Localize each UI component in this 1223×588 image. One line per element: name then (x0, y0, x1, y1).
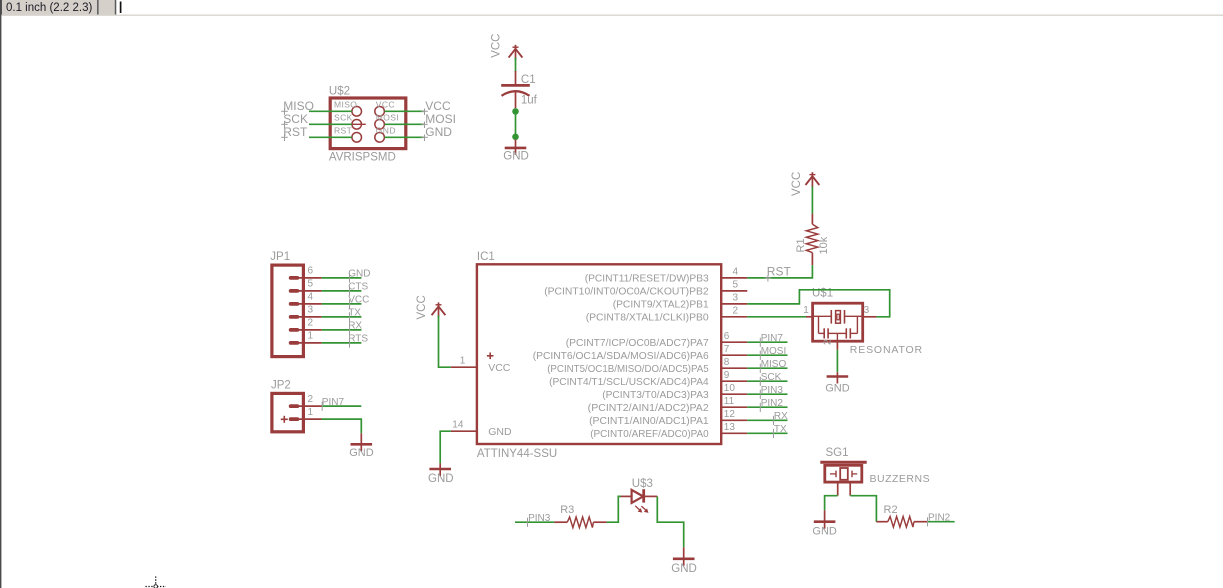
svg-text:3: 3 (308, 305, 314, 316)
JP1 pin 6 blob (289, 276, 299, 280)
svg-text:0.1 inch (2.2 2.3): 0.1 inch (2.2 2.3) (6, 2, 92, 14)
IC1 pin name (PCINT2/AIN1/ADC2)PA2 (588, 402, 709, 414)
JP2 pin 1 stub (299, 418, 322, 420)
svg-text:MOSI: MOSI (761, 346, 787, 357)
svg-text:(PCINT0/AREF/ADC0)PA0: (PCINT0/AREF/ADC0)PA0 (590, 428, 709, 440)
svg-text:1: 1 (308, 407, 314, 418)
wire IC1 pin 6 to net PIN7 (747, 341, 787, 343)
GND label below LED (671, 563, 697, 575)
svg-text:RESONATOR: RESONATOR (850, 344, 923, 356)
svg-text:SCK: SCK (761, 372, 782, 383)
wire net MISO to U$2 left row1 (309, 110, 352, 112)
SG1 left lead (837, 483, 839, 496)
IC1 pin 2 stub (721, 316, 747, 318)
JP2 pin number 1 (308, 407, 314, 418)
ground symbol below SG1 (814, 510, 836, 529)
wire IC1 pin3 loop to U$1 pin3 (747, 290, 889, 317)
svg-text:12: 12 (724, 409, 736, 420)
U$2 pin1 marker line (351, 123, 366, 125)
svg-text:TX: TX (348, 308, 361, 319)
connector JP2 body (272, 393, 304, 431)
net label MOSI right (421, 112, 456, 128)
wire R1 to IC1 pin4 net RST (747, 265, 812, 278)
svg-text:GND: GND (825, 383, 850, 395)
IC1 pin number 10 (724, 383, 736, 394)
IC1 pin number 4 (733, 267, 739, 278)
IC1 pin number 8 (724, 357, 730, 368)
LED U$3 symbol (632, 489, 644, 503)
toolbar coordinate text (6, 2, 92, 14)
wire VCC to C1 (515, 58, 517, 73)
IC1 designator label (477, 251, 495, 263)
svg-text:PIN3: PIN3 (528, 513, 551, 524)
IC1 pin 9 stub (721, 380, 747, 382)
svg-text:1: 1 (460, 355, 466, 366)
svg-text:JP2: JP2 (271, 380, 291, 392)
net label CTS (348, 282, 368, 296)
svg-text:(PCINT8/XTAL1/CLKI)PB0: (PCINT8/XTAL1/CLKI)PB0 (586, 311, 709, 323)
IC1 pin name (PCINT11/RESET/DW)PB3 (585, 273, 709, 285)
JP1 pin number 5 (308, 279, 314, 290)
svg-text:PIN2: PIN2 (761, 398, 784, 409)
svg-text:VCC: VCC (791, 172, 803, 196)
SG1 designator label (826, 447, 849, 459)
svg-text:R2: R2 (884, 504, 898, 516)
U$2 inner pin name GND (376, 125, 396, 135)
IC1 pin name (PCINT4/T1/SCL/USCK/ADC4)PA4 (549, 376, 709, 388)
svg-text:7: 7 (724, 344, 730, 355)
svg-text:GND: GND (428, 473, 454, 485)
left window border (0, 0, 2, 588)
IC1 pin 8 stub (721, 367, 747, 369)
R1 designator rotated (795, 238, 807, 252)
net label PIN3 (528, 513, 551, 527)
svg-text:(PCINT10/INT0/OC0A/CKOUT)PB2: (PCINT10/INT0/OC0A/CKOUT)PB2 (544, 286, 709, 298)
JP1 pin 4 stub (299, 303, 322, 305)
wire U$2 right row3 to net GND (384, 136, 423, 138)
IC1 pin 13 stub (721, 432, 747, 434)
IC1 pin name (PCINT1/AIN0/ADC1)PA1 (589, 415, 709, 427)
IC1 pin name (PCINT6/OC1A/SDA/MOSI/ADC6)PA6 (533, 350, 709, 362)
svg-text:JP1: JP1 (270, 251, 290, 263)
U$2 value label AVRISPSMD (329, 152, 396, 164)
wire IC1 pin 7 to net MOSI (747, 354, 787, 356)
wire IC1 pin2 to U$1 pin1 (747, 316, 806, 318)
R3 left lead (554, 521, 567, 523)
net label VCC right (421, 99, 451, 115)
IC1 pin name (PCINT5/OC1B/MISO/DO/ADC5)PA5 (547, 363, 709, 375)
JP2 pin 1 blob (289, 417, 299, 421)
svg-text:2: 2 (308, 394, 314, 405)
capacitor C1 (501, 71, 530, 108)
IC1 pin number 7 (724, 344, 730, 355)
IC1 pin 10 stub (721, 393, 747, 395)
SG1 crystal detail (830, 468, 857, 480)
IC1 pin 11 stub (721, 406, 747, 408)
SG1 right lead (849, 483, 851, 496)
svg-text:(PCINT1/AIN0/ADC1)PA1: (PCINT1/AIN0/ADC1)PA1 (589, 415, 709, 427)
net label MISO (760, 359, 786, 373)
JP1 pin 3 stub (299, 316, 322, 318)
text cursor in command bar (120, 2, 122, 14)
net label PIN2 (760, 398, 783, 412)
U$2 inner pin name VCC (376, 99, 395, 109)
U$2 pin circle right row2 (375, 120, 385, 130)
wire IC1 pin 13 to net TX (747, 432, 787, 434)
wire JP1 pin 1 to net RTS (322, 342, 362, 344)
JP1 pin number 1 (308, 331, 314, 342)
power symbol VCC above C1 (509, 45, 523, 60)
svg-text:14: 14 (452, 419, 464, 430)
svg-text:U$3: U$3 (632, 478, 653, 490)
net label TX (348, 308, 361, 322)
JP1 pin 4 blob (289, 302, 299, 306)
LED cathode lead (644, 495, 658, 497)
ground symbol below JP2 (351, 433, 373, 451)
connector U$2 body (330, 98, 406, 149)
svg-text:U$2: U$2 (329, 86, 350, 98)
ground symbol below U$1 (827, 372, 849, 383)
wire IC1 pin 11 to net PIN2 (747, 406, 787, 408)
svg-text:PIN7: PIN7 (322, 397, 345, 408)
U$2 inner pin name RST (334, 125, 352, 135)
U$2 inner pin name MOSI (376, 112, 399, 122)
svg-text:(PCINT6/OC1A/SDA/MOSI/ADC6)PA6: (PCINT6/OC1A/SDA/MOSI/ADC6)PA6 (533, 350, 709, 362)
U$3 designator label (632, 478, 653, 490)
U$1 load capacitors (819, 316, 858, 341)
IC1 pin 3 stub (721, 303, 747, 305)
net label MOSI (760, 346, 786, 360)
net label RX (348, 321, 362, 335)
JP1 pin 5 stub (299, 290, 322, 292)
svg-text:MISO: MISO (334, 99, 357, 109)
R3 designator label (560, 504, 574, 516)
svg-text:IC1: IC1 (477, 251, 495, 263)
IC1 pin name (PCINT10/INT0/OC0A/CKOUT)PB2 (544, 286, 709, 298)
U$2 pin circle left row2 (352, 120, 362, 130)
power symbol VCC above R1 (806, 172, 820, 187)
VCC label rotated (C1) (491, 34, 503, 58)
IC1 pin 14 stub (451, 430, 477, 432)
svg-text:1: 1 (308, 331, 314, 342)
wire SG1 left to ground (825, 496, 838, 511)
svg-text:2: 2 (733, 306, 739, 317)
net label RST (281, 125, 308, 141)
LED emission arrows (635, 506, 648, 513)
GND label below JP2 (349, 447, 374, 459)
IC1 pin number 1 (460, 355, 466, 366)
U$2 pin circle left row3 (352, 133, 362, 143)
wire JP1 pin 5 to net CTS (322, 290, 362, 292)
U$1 pin 3 stub (863, 316, 877, 318)
U$1 designator label (812, 288, 833, 300)
wire VCC to IC1 pin1 (439, 315, 451, 367)
IC1 pin number 6 (724, 331, 730, 342)
origin crosshair (146, 577, 167, 588)
connector JP1 body (272, 265, 304, 357)
wire C1 to GND (515, 111, 517, 136)
net label MISO (281, 99, 314, 115)
svg-text:RTS: RTS (348, 334, 368, 345)
U$2 inner pin name MISO (334, 99, 357, 109)
IC1 pin number 13 (724, 422, 736, 433)
IC1 pin 7 stub (721, 354, 747, 356)
svg-text:ATTINY44-SSU: ATTINY44-SSU (477, 448, 557, 460)
wire net RST to U$2 left row3 (309, 136, 352, 138)
svg-text:SCK: SCK (334, 112, 353, 122)
JP2 pin 2 blob (289, 404, 299, 408)
U$1 pin number 2 rotated (823, 339, 834, 345)
wire JP1 pin 4 to net VCC (322, 303, 362, 305)
svg-text:4: 4 (308, 292, 314, 303)
svg-text:GND: GND (812, 526, 837, 538)
GND label below U$1 (825, 383, 850, 395)
LED U$3 anode lead (621, 495, 631, 497)
net label RST (765, 264, 792, 281)
IC1 pin name (PCINT7/ICP/OC0B/ADC7)PA7 (566, 337, 709, 349)
ground symbol below LED (673, 547, 695, 566)
net label RTS (348, 334, 368, 348)
IC1 pin 1 stub (451, 366, 477, 368)
GND label below IC1 (428, 473, 454, 485)
IC1 pin name (PCINT3/T0/ADC3)PA3 (602, 389, 709, 401)
svg-text:GND: GND (348, 269, 370, 280)
svg-text:GND: GND (488, 426, 512, 438)
svg-text:VCC: VCC (416, 295, 428, 319)
IC1 internal plus mark (487, 353, 494, 360)
svg-text:(PCINT9/XTAL2)PB1: (PCINT9/XTAL2)PB1 (613, 299, 709, 311)
svg-text:GND: GND (425, 125, 452, 139)
C1 value label 1uf (521, 95, 538, 107)
svg-text:5: 5 (308, 279, 314, 290)
IC1 pin number 12 (724, 409, 736, 420)
svg-text:1: 1 (803, 305, 809, 316)
svg-text:MISO: MISO (761, 359, 787, 370)
svg-text:BUZZERNS: BUZZERNS (870, 473, 931, 485)
JP1 pin 2 stub (299, 329, 322, 331)
GND label below C1 (503, 150, 529, 162)
JP1 pin number 2 (308, 318, 314, 329)
junction dot upper (512, 108, 519, 115)
resistor R1 zigzag (806, 224, 818, 252)
svg-text:9: 9 (724, 370, 730, 381)
C1 designator label (521, 74, 536, 86)
wire R3 to LED anode (607, 496, 621, 522)
wire VCC to R1 (811, 187, 813, 214)
IC1 pin number 2 (733, 306, 739, 317)
resistor R3 zigzag (567, 517, 593, 528)
resonator U$1 body (813, 303, 863, 341)
SG1 value label BUZZERNS (870, 473, 931, 485)
svg-text:RX: RX (348, 321, 362, 332)
svg-text:VCC: VCC (488, 362, 511, 374)
JP2 pin 2 stub (299, 405, 322, 407)
svg-text:GND: GND (349, 447, 374, 459)
wire JP2 pin 2 to net PIN7 (322, 405, 362, 407)
power symbol VCC at IC1 pin1 (432, 302, 446, 317)
svg-text:8: 8 (724, 357, 730, 368)
JP1 pin number 4 (308, 292, 314, 303)
wire IC1 pin 12 to net RX (747, 419, 787, 421)
net label RX (774, 411, 789, 425)
wire net PIN3 to R3 (515, 521, 554, 523)
JP1 designator label (270, 251, 290, 263)
svg-text:(PCINT7/ICP/OC0B/ADC7)PA7: (PCINT7/ICP/OC0B/ADC7)PA7 (566, 337, 709, 349)
net label GND right (421, 125, 452, 141)
svg-text:(PCINT4/T1/SCL/USCK/ADC4)PA4: (PCINT4/T1/SCL/USCK/ADC4)PA4 (549, 376, 709, 388)
net label SCK (760, 372, 781, 386)
IC1 pin number 9 (724, 370, 730, 381)
U$2 designator label (329, 86, 350, 98)
svg-text:MISO: MISO (283, 99, 314, 113)
IC1 pin name (PCINT8/XTAL1/CLKI)PB0 (586, 311, 709, 323)
R1 lower lead (811, 253, 813, 266)
U$1 pin number 1 (803, 305, 809, 316)
svg-text:(PCINT2/AIN1/ADC2)PA2: (PCINT2/AIN1/ADC2)PA2 (588, 402, 709, 414)
svg-text:PIN3: PIN3 (761, 385, 784, 396)
R1 value 10k rotated (818, 236, 830, 254)
svg-text:RST: RST (334, 125, 352, 135)
U$1 pin 1 stub (806, 316, 813, 318)
svg-text:5: 5 (733, 280, 739, 291)
JP2 polarity mark + (281, 416, 288, 423)
wire SG1 right to R2 (850, 496, 876, 522)
svg-text:TX: TX (774, 424, 787, 435)
JP1 pin 3 blob (289, 315, 299, 319)
U$1 pin 2 stub (836, 341, 838, 350)
net label TX (774, 424, 788, 438)
JP2 pin number 2 (308, 394, 314, 405)
svg-text:13: 13 (724, 422, 736, 433)
svg-text:6: 6 (724, 331, 730, 342)
JP1 pin 1 blob (289, 341, 299, 345)
svg-text:GND: GND (671, 563, 697, 575)
svg-text:RST: RST (767, 264, 792, 278)
svg-text:VCC: VCC (376, 99, 395, 109)
svg-text:VCC: VCC (425, 99, 451, 113)
svg-text:C1: C1 (521, 74, 536, 86)
VCC label rotated (IC1) (416, 295, 428, 319)
svg-text:SG1: SG1 (826, 447, 849, 459)
JP1 pin 2 blob (289, 328, 299, 332)
svg-text:1uf: 1uf (521, 95, 538, 107)
svg-text:MOSI: MOSI (376, 112, 399, 122)
svg-text:VCC: VCC (491, 34, 503, 58)
IC1 pin 6 stub (721, 341, 747, 343)
svg-text:3: 3 (864, 305, 870, 316)
svg-text:R3: R3 (560, 504, 574, 516)
svg-text:10: 10 (724, 383, 736, 394)
svg-text:PIN7: PIN7 (761, 333, 784, 344)
IC1 pin name (PCINT9/XTAL2)PB1 (613, 299, 709, 311)
svg-text:PIN2: PIN2 (928, 512, 951, 523)
IC1 pin number 3 (733, 293, 739, 304)
net label SCK (281, 112, 308, 128)
wire IC1 pin 9 to net SCK (747, 380, 787, 382)
wire net SCK to U$2 left row2 (309, 123, 352, 125)
U$2 pin circle right row3 (375, 133, 385, 143)
svg-text:GND: GND (503, 150, 529, 162)
wire JP1 pin 3 to net TX (322, 316, 362, 318)
wire U$2 right row1 to net VCC (384, 110, 423, 112)
net label VCC (348, 295, 369, 309)
svg-text:R1: R1 (795, 238, 807, 252)
R1 upper lead (811, 214, 813, 225)
IC1 pin number 11 (724, 396, 735, 407)
net label PIN3 (760, 385, 783, 399)
wire U$2 right row2 to net MOSI (384, 123, 423, 125)
IC U1 (IC1) body (477, 264, 721, 444)
IC1 pin 12 stub (721, 419, 747, 421)
U$2 pin circle right row1 (375, 107, 385, 117)
IC1 pin 5 stub (721, 290, 747, 292)
U$1 value label RESONATOR (850, 344, 923, 356)
svg-text:(PCINT5/OC1B/MISO/DO/ADC5)PA5: (PCINT5/OC1B/MISO/DO/ADC5)PA5 (547, 363, 709, 375)
svg-text:2: 2 (823, 339, 834, 345)
JP2 designator label (271, 380, 291, 392)
U$2 inner pin name SCK (334, 112, 353, 122)
JP1 pin 6 stub (299, 277, 322, 279)
VCC label rotated (R1) (791, 172, 803, 196)
wire JP1 pin 6 to net GND (322, 277, 362, 279)
svg-text:VCC: VCC (348, 295, 369, 306)
U$1 crystal symbol (814, 310, 862, 324)
wire JP1 pin 2 to net RX (322, 329, 362, 331)
ground symbol below IC1 (429, 463, 451, 476)
svg-text:3: 3 (733, 293, 739, 304)
wire IC1 pin 8 to net MISO (747, 367, 787, 369)
ground symbol below C1 (505, 140, 527, 155)
IC1 value label ATTINY44-SSU (477, 448, 557, 460)
svg-text:AVRISPSMD: AVRISPSMD (329, 152, 396, 164)
junction dot lower (512, 134, 519, 141)
IC1 pin number 5 (733, 280, 739, 291)
IC1 internal pin name GND (488, 426, 512, 438)
IC1 pin name (PCINT0/AREF/ADC0)PA0 (590, 428, 709, 440)
JP1 pin number 3 (308, 305, 314, 316)
JP1 pin 1 stub (299, 342, 322, 344)
net label PIN2 (R2) (928, 512, 951, 526)
toolbar background (0, 0, 1223, 15)
wire JP2 pin 1 to ground (322, 419, 362, 433)
svg-text:2: 2 (308, 318, 314, 329)
JP1 pin 5 blob (289, 289, 299, 293)
IC1 internal pin name VCC (488, 362, 511, 374)
R2 left lead (876, 521, 887, 523)
wire IC1 pin14 to ground (440, 431, 451, 463)
GND label below SG1 (812, 526, 837, 538)
svg-text:4: 4 (733, 267, 739, 278)
svg-text:GND: GND (376, 125, 396, 135)
svg-text:MOSI: MOSI (425, 112, 456, 126)
net label PIN7 (760, 333, 783, 347)
resistor R2 zigzag (888, 517, 914, 528)
svg-text:(PCINT11/RESET/DW)PB3: (PCINT11/RESET/DW)PB3 (585, 273, 709, 285)
U$2 pin circle left row1 (352, 107, 362, 117)
IC1 pin 4 stub (721, 277, 747, 279)
wire U$1 pin2 to ground (836, 350, 838, 372)
svg-text:6: 6 (308, 266, 314, 277)
R3 right lead (593, 521, 606, 523)
svg-text:(PCINT3/T0/ADC3)PA3: (PCINT3/T0/ADC3)PA3 (602, 389, 709, 401)
R2 designator label (884, 504, 898, 516)
wire IC1 pin 10 to net PIN3 (747, 393, 787, 395)
wire LED cathode to ground (657, 496, 683, 547)
buzzer SG1 body (820, 462, 866, 482)
svg-text:RX: RX (774, 411, 788, 422)
wire R2 to net PIN2 (928, 521, 955, 523)
svg-text:CTS: CTS (348, 282, 368, 293)
